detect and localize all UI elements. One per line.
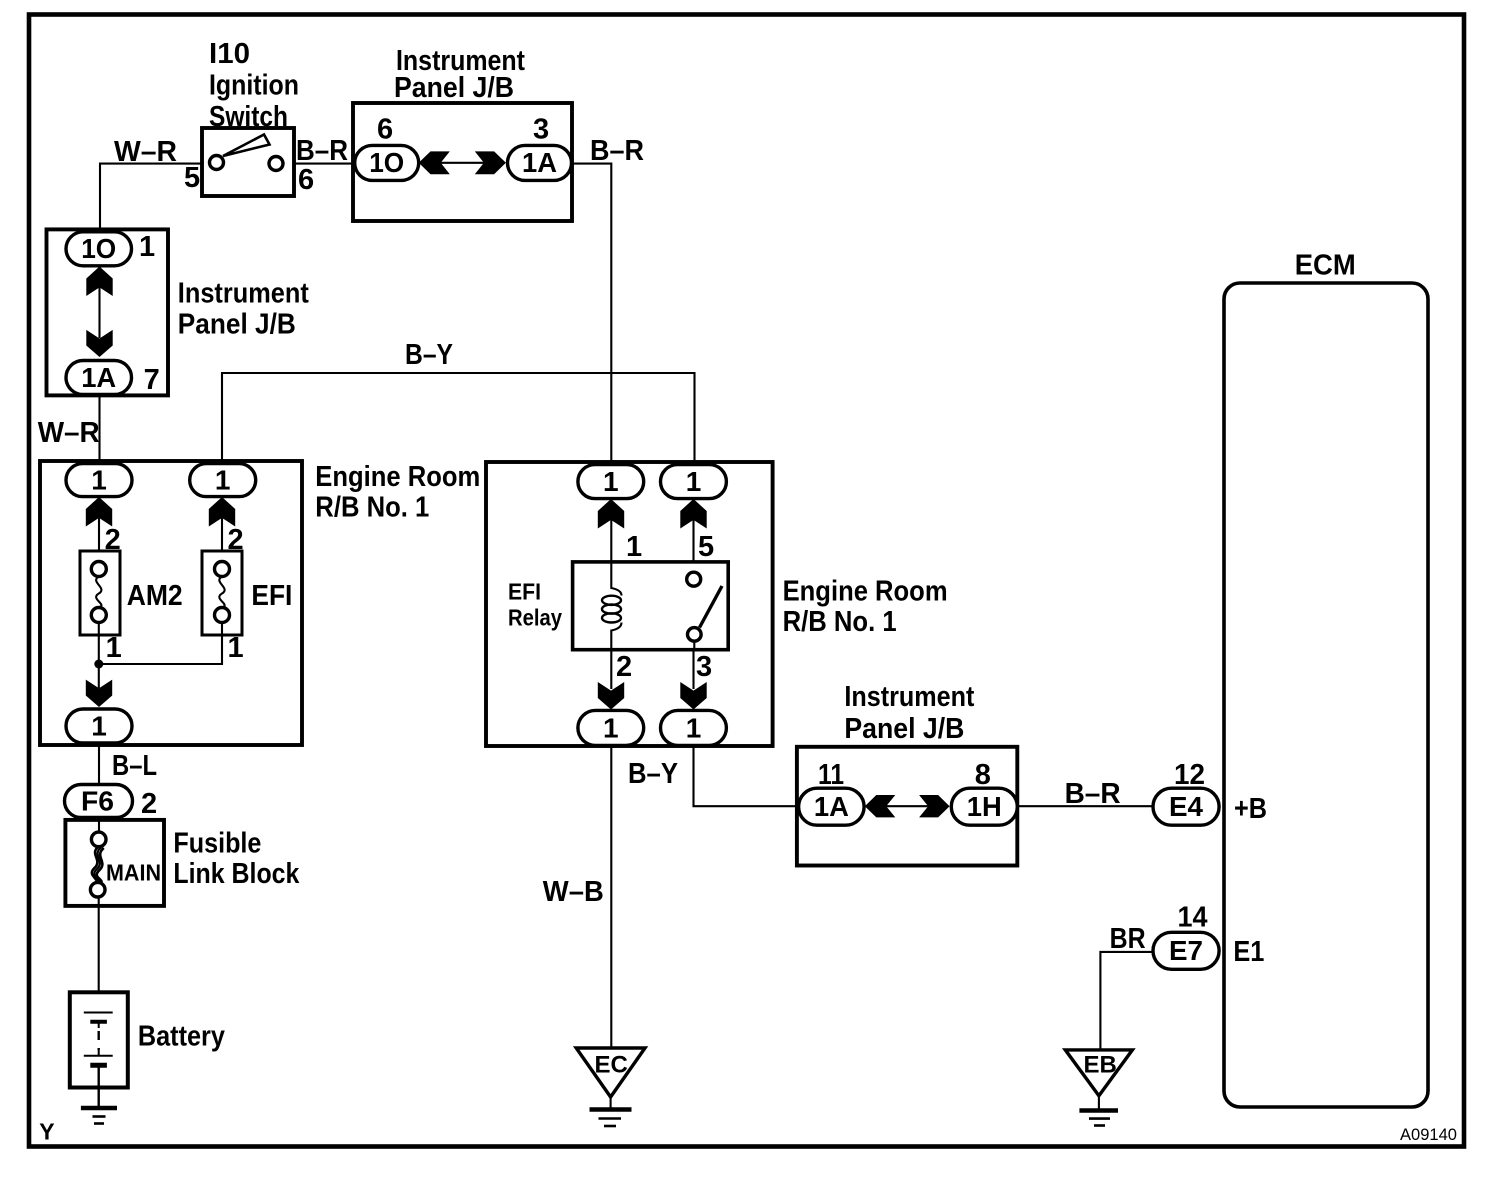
connector 1 (relay switch top) xyxy=(661,465,727,499)
engine room R/B No.1 (left) label xyxy=(315,461,480,524)
junction arrow above EFI fuse xyxy=(209,497,235,562)
wire switch to instrument panel J/B xyxy=(294,163,356,165)
wire fusible link to battery xyxy=(98,897,100,1013)
svg-text:BR: BR xyxy=(1110,923,1146,955)
svg-text:Fusible: Fusible xyxy=(173,828,261,860)
svg-text:1: 1 xyxy=(215,465,231,496)
svg-text:E7: E7 xyxy=(1169,935,1203,966)
wire relay switch to instrument panel J/B 1A xyxy=(694,745,801,806)
svg-text:EB: EB xyxy=(1084,1051,1117,1078)
svg-text:2: 2 xyxy=(141,788,157,820)
svg-text:W–R: W–R xyxy=(38,417,100,449)
svg-text:8: 8 xyxy=(975,759,991,791)
svg-text:3: 3 xyxy=(533,114,549,146)
svg-text:2: 2 xyxy=(616,651,632,683)
wire W-R from switch to left J/B xyxy=(100,164,202,233)
svg-text:Ignition: Ignition xyxy=(209,70,299,102)
svg-text:B–L: B–L xyxy=(112,750,157,782)
connector 1 (relay switch bottom) xyxy=(661,710,727,745)
engine room R/B No.1 (relay) label xyxy=(783,576,948,639)
fuse AM2 xyxy=(80,551,120,635)
svg-text:E1: E1 xyxy=(1233,936,1264,968)
wire switch pin3 down xyxy=(692,650,694,689)
instrument panel J/B (top) box xyxy=(353,103,572,221)
fusible link MAIN xyxy=(90,818,106,897)
svg-text:14: 14 xyxy=(1178,902,1208,934)
svg-text:6: 6 xyxy=(298,164,314,196)
svg-text:+B: +B xyxy=(1234,793,1267,825)
svg-text:1A: 1A xyxy=(522,147,557,178)
wire 1A down to engine room R/B xyxy=(98,395,100,467)
svg-text:EC: EC xyxy=(595,1052,628,1079)
wire EFI fuse to junction node xyxy=(99,623,222,665)
svg-text:3: 3 xyxy=(696,651,712,683)
svg-text:R/B No. 1: R/B No. 1 xyxy=(315,492,429,524)
connector E7 xyxy=(1153,932,1219,969)
junction arrow above AM2 xyxy=(86,497,112,562)
svg-text:I10: I10 xyxy=(209,38,250,70)
junction arrow (switch top) xyxy=(680,499,706,573)
svg-text:Link Block: Link Block xyxy=(173,858,300,890)
junction arrow above bottom connector xyxy=(86,680,112,707)
wire B-Y from EFI fuse to relay switch xyxy=(222,373,695,466)
svg-text:E4: E4 xyxy=(1169,791,1203,822)
svg-text:Panel J/B: Panel J/B xyxy=(178,309,296,341)
ground EB xyxy=(1065,1050,1132,1126)
junction node dot xyxy=(94,660,103,669)
instrument panel J/B (bottom) box xyxy=(797,747,1017,866)
svg-text:1: 1 xyxy=(686,466,702,497)
svg-text:12: 12 xyxy=(1174,759,1205,791)
wire to fusible link block xyxy=(98,743,100,786)
svg-text:R/B No. 1: R/B No. 1 xyxy=(783,606,897,638)
svg-text:6: 6 xyxy=(377,114,393,146)
svg-text:A09140: A09140 xyxy=(1400,1125,1457,1144)
svg-text:1A: 1A xyxy=(814,791,849,822)
svg-text:EFI: EFI xyxy=(508,579,541,605)
svg-text:1: 1 xyxy=(228,632,244,664)
wire 1H to E4 xyxy=(1017,805,1154,807)
fuse EFI xyxy=(202,551,242,635)
svg-text:ECM: ECM xyxy=(1295,250,1356,282)
svg-text:5: 5 xyxy=(184,162,200,194)
connector 1 (relay coil top) xyxy=(578,465,644,499)
svg-text:Instrument: Instrument xyxy=(844,681,974,713)
junction arrow (switch bottom) xyxy=(680,682,706,710)
wire E7 to ground EB xyxy=(1100,952,1153,1050)
svg-text:1: 1 xyxy=(603,466,619,497)
svg-text:1: 1 xyxy=(91,465,107,496)
wire coil pin2 down xyxy=(610,650,612,689)
svg-text:1: 1 xyxy=(626,531,642,563)
engine room R/B No.1 (relay) box xyxy=(486,462,773,746)
svg-text:B–R: B–R xyxy=(590,135,644,167)
svg-text:Instrument: Instrument xyxy=(178,278,309,310)
connector 1 (bottom of left R/B) xyxy=(66,709,132,743)
instrument panel J/B (left) label xyxy=(178,278,309,341)
connector 1A (bottom J/B) xyxy=(799,788,865,825)
svg-text:Battery: Battery xyxy=(138,1021,225,1053)
svg-text:EFI: EFI xyxy=(251,580,292,612)
junction arrow (coil top) xyxy=(598,499,624,562)
svg-text:F6: F6 xyxy=(81,785,114,816)
svg-text:1: 1 xyxy=(603,712,619,743)
connector 1O (left J/B) xyxy=(66,232,132,266)
instrument panel J/B (bottom) label xyxy=(844,681,974,745)
svg-text:7: 7 xyxy=(144,364,160,396)
connector 1A (left J/B) xyxy=(66,361,132,395)
svg-text:B–R: B–R xyxy=(296,135,348,167)
battery xyxy=(70,992,128,1107)
junction arrows between 1A and 1H xyxy=(865,795,950,817)
connector 1H (bottom J/B) xyxy=(951,788,1017,825)
connector 1 (above EFI fuse) xyxy=(190,464,256,497)
wire B-R from 1A down to EFI relay coil xyxy=(572,164,612,466)
svg-text:B–Y: B–Y xyxy=(405,339,453,371)
ground (battery) xyxy=(81,1108,117,1124)
fusible link block box xyxy=(65,820,164,906)
ground EC xyxy=(576,1048,645,1126)
svg-text:MAIN: MAIN xyxy=(106,860,161,886)
connector 1 (relay coil bottom) xyxy=(578,710,644,745)
svg-text:1: 1 xyxy=(106,632,122,664)
svg-text:1H: 1H xyxy=(967,791,1002,822)
engine room R/B No.1 (left) box xyxy=(40,461,302,745)
instrument panel J/B (top) label xyxy=(394,45,525,104)
svg-text:1: 1 xyxy=(139,231,155,263)
svg-text:Engine Room: Engine Room xyxy=(315,461,480,493)
instrument panel J/B (left) box xyxy=(47,229,169,395)
svg-text:5: 5 xyxy=(698,531,714,563)
EFI relay label xyxy=(508,579,562,631)
svg-text:AM2: AM2 xyxy=(127,580,183,612)
wire relay coil to ground EC xyxy=(610,745,612,1048)
svg-text:1O: 1O xyxy=(369,147,404,178)
svg-text:B–Y: B–Y xyxy=(628,758,678,790)
svg-text:1O: 1O xyxy=(81,233,116,264)
svg-text:1A: 1A xyxy=(81,362,116,393)
svg-text:Panel J/B: Panel J/B xyxy=(394,72,514,104)
internal wire with junction arrows (left J/B) xyxy=(86,267,112,358)
svg-text:11: 11 xyxy=(818,759,844,791)
fusible link block label xyxy=(173,828,300,890)
junction arrow (coil bottom) xyxy=(598,682,624,710)
svg-text:Y: Y xyxy=(39,1119,54,1145)
connector 1O xyxy=(355,145,419,180)
connector F6 xyxy=(65,785,133,818)
wire AM2 to junction node xyxy=(98,623,100,689)
svg-text:W–B: W–B xyxy=(543,876,604,908)
relay U1 (EFI relay) xyxy=(573,562,729,650)
svg-text:1: 1 xyxy=(91,711,107,742)
ignition switch I10 label xyxy=(209,38,299,133)
svg-text:Relay: Relay xyxy=(508,605,562,631)
ECM box U2 xyxy=(1224,283,1428,1107)
connector 1A xyxy=(508,145,572,180)
svg-text:1: 1 xyxy=(686,712,702,743)
connector E4 xyxy=(1153,788,1219,825)
junction arrows between 1O and 1A xyxy=(419,151,506,174)
ignition switch I10 xyxy=(202,128,294,196)
svg-text:Panel J/B: Panel J/B xyxy=(844,713,964,745)
connector 1 (above AM2) xyxy=(66,464,132,497)
svg-text:Engine Room: Engine Room xyxy=(783,576,948,608)
